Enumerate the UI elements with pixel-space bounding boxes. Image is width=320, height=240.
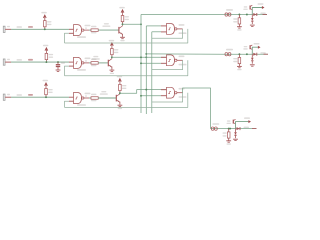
bus vertical V2	[145, 26, 147, 114]
diode stage1 on wire	[253, 13, 256, 16]
resistor R7 pullup	[122, 13, 124, 15]
transistor T3 BC547	[115, 95, 117, 102]
wire gate3 output to stage3	[183, 88, 211, 129]
op gate IC1A input pins	[69, 28, 74, 30]
resistor R3 pullup 10k	[45, 86, 47, 88]
resistor R2 pullup 10k	[45, 51, 47, 53]
resistor R6 series	[89, 97, 91, 99]
wire to T1 base	[98, 29, 119, 31]
net label S3	[28, 94, 33, 96]
feedback wire into input 2 row 3	[65, 101, 70, 107]
VCC arrow R3 pullup	[43, 80, 49, 82]
inner loop wire IC2B	[152, 93, 183, 102]
nand gate IC2B 4093	[167, 87, 175, 98]
VCC arrow R9	[117, 76, 123, 78]
feed wire stage1	[141, 14, 225, 16]
output pin IC2B	[177, 92, 183, 94]
nand gate IC1B 4093	[74, 57, 82, 68]
LED stage3 below	[235, 129, 237, 132]
wire gate2m input2	[141, 62, 161, 64]
feed wire stage2	[146, 53, 225, 55]
nand gate IC1C 4093	[74, 93, 82, 104]
junction node S2	[45, 61, 47, 63]
wire node O1 collector to bus V1	[123, 23, 142, 25]
inner loop wire IC1D	[152, 29, 183, 38]
output pin IC1C	[84, 97, 89, 99]
junction stage3	[229, 128, 231, 130]
jumper pads stage2	[226, 49, 233, 51]
output pin IC1A	[84, 29, 89, 31]
net label S2	[28, 59, 33, 61]
resistor stage2 base divider	[238, 53, 240, 55]
nand gate IC2A 4093	[167, 55, 175, 66]
transistor T2 BC547	[107, 60, 109, 67]
ground T1	[120, 36, 125, 38]
junction node O1	[122, 23, 124, 25]
bus vertical V3	[151, 32, 153, 113]
op gate IC1B input pins	[69, 61, 74, 63]
junction stage2	[246, 53, 248, 55]
wire stage3 output row	[211, 128, 257, 130]
net label S1	[28, 26, 33, 28]
wire to T2 base	[98, 62, 108, 64]
transistor stage1 at corner	[249, 6, 251, 10]
resistor stage1 base divider	[238, 14, 240, 16]
ground LED stage1	[250, 24, 255, 26]
wire end pin stage1	[263, 14, 268, 16]
LED stage2 below	[251, 54, 253, 57]
input pins IC1D	[161, 25, 167, 27]
junction O2 V1 crossing	[140, 56, 142, 58]
wire stage2 output row	[225, 53, 268, 55]
resistor R9 pullup	[119, 82, 121, 84]
transistor T1 BC547	[118, 27, 120, 34]
feedback wire IC2B to IC1C	[65, 93, 188, 108]
supply arrow stage2	[258, 46, 261, 49]
op gate IC1C input pins	[69, 96, 74, 98]
ground C1	[56, 69, 61, 71]
wire gate1m input2	[152, 31, 161, 33]
wire stage3 up corner to supply arrow	[236, 122, 251, 129]
junction O1 on V1	[140, 23, 142, 25]
wire node O2 collector to gate2 input1	[112, 56, 167, 58]
wire net S2	[11, 61, 69, 63]
feedback wire into input 2 row 2	[65, 66, 70, 76]
bus vertical V1 node O1	[140, 15, 142, 114]
resistor R8 pullup	[111, 46, 113, 48]
output pin IC1D	[177, 28, 183, 30]
wire stage2 up corner to supply arrow	[252, 47, 259, 54]
junction stage2 feed on V2	[145, 53, 147, 55]
feedback wire IC1D to IC1A	[65, 29, 188, 43]
junction stage1	[246, 14, 248, 16]
junction node O3	[119, 92, 121, 94]
wire end pin stage3	[252, 128, 257, 130]
VCC arrow R8	[109, 40, 115, 42]
VCC arrow R1 pullup	[41, 12, 47, 14]
wire net S3	[11, 96, 69, 98]
jumper pads stage3	[212, 123, 219, 125]
junction node S1	[44, 28, 46, 30]
LED stage1 below	[251, 15, 253, 18]
ground T2	[110, 69, 115, 71]
feedback wire IC2A to IC1B	[65, 60, 188, 75]
resistor R5 series	[89, 62, 91, 64]
connector X1	[3, 26, 5, 32]
diode stage3 on wire	[237, 127, 240, 130]
inner loop wire IC2A	[152, 60, 183, 69]
VCC arrow R2 pullup	[43, 45, 49, 47]
VCC arrow R7	[119, 7, 125, 8]
output pin IC1B	[84, 62, 89, 64]
capacitor C1	[57, 61, 59, 63]
output pin IC2A	[177, 59, 183, 61]
ground LED stage3	[233, 138, 238, 140]
connector X2	[3, 59, 5, 65]
supply arrow stage3	[248, 120, 251, 123]
T3 collector wire	[119, 92, 121, 94]
connector X3	[3, 94, 5, 100]
wire node O3 collector jog to gate3 input1	[120, 90, 167, 94]
wire gate1m input1	[146, 25, 161, 27]
wire net S1	[11, 28, 69, 30]
T1 emitter wire	[122, 34, 124, 37]
diode stage2 on wire	[253, 53, 256, 56]
wire gate3m input2	[141, 95, 161, 97]
transistor stage3 at corner	[232, 120, 234, 124]
ground stage1	[237, 26, 242, 28]
ground stage2	[237, 65, 242, 67]
T2 emitter wire	[111, 67, 113, 70]
resistor R4 series	[89, 29, 91, 31]
resistor stage3 base divider	[228, 128, 230, 130]
nand gate IC1D 4093	[167, 24, 175, 35]
supply arrow stage1	[262, 6, 265, 9]
wire end pin stage2	[264, 53, 269, 55]
transistor stage2 at corner	[249, 45, 251, 49]
feedback wire into input 2 row 1	[65, 33, 70, 43]
wire stage1 up corner to supply arrow	[252, 8, 263, 15]
wire stage1 output row	[225, 14, 267, 16]
input pins IC2A	[161, 56, 167, 58]
feed wire stage3	[210, 128, 213, 130]
resistor R1 pullup 10k	[44, 19, 46, 21]
ground LED stage2	[250, 64, 255, 66]
junction O3 V2	[145, 89, 147, 91]
jumper pads stage1	[226, 9, 233, 11]
T3 emitter wire	[119, 102, 121, 105]
input pins IC2B	[161, 89, 167, 91]
nand gate IC1A 4093	[74, 25, 82, 36]
T2 collector wire	[111, 57, 113, 58]
junction node S3	[45, 96, 47, 98]
wire to T3 base	[98, 97, 116, 99]
ground T3	[118, 104, 123, 106]
junction node O2	[111, 56, 113, 58]
T1 collector wire	[122, 24, 124, 25]
ground stage3	[226, 140, 231, 142]
